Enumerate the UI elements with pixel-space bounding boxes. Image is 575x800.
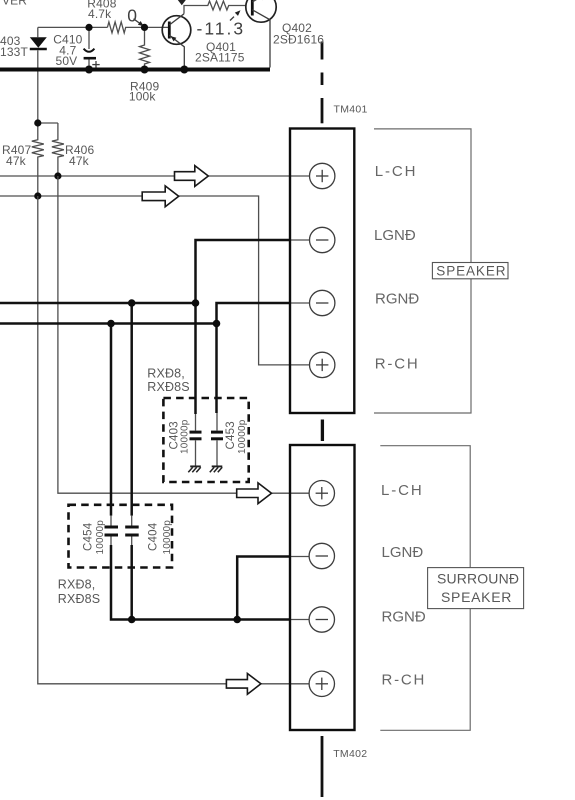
svg-text:SPEAKER: SPEAKER <box>436 264 506 279</box>
svg-text:R-CH: R-CH <box>382 672 427 689</box>
svg-text:RGNĐ: RGNĐ <box>375 291 419 308</box>
svg-text:2SA1175: 2SA1175 <box>195 51 245 65</box>
svg-text:RXĐ8,: RXĐ8, <box>147 367 185 381</box>
svg-text:RXĐ8S: RXĐ8S <box>147 380 189 394</box>
svg-text:100k: 100k <box>129 89 156 103</box>
svg-text:C454: C454 <box>83 522 95 551</box>
svg-text:TM401: TM401 <box>334 103 368 115</box>
svg-text:C404: C404 <box>148 522 160 551</box>
svg-text:LGNĐ: LGNĐ <box>374 227 416 244</box>
svg-text:RGNĐ: RGNĐ <box>382 609 426 626</box>
svg-text:47k: 47k <box>69 154 90 168</box>
svg-text:47k: 47k <box>6 154 27 168</box>
svg-text:0: 0 <box>127 6 139 26</box>
svg-text:10000p: 10000p <box>95 520 106 555</box>
svg-text:10000p: 10000p <box>179 419 190 454</box>
svg-text:VER: VER <box>2 0 27 8</box>
svg-text:4.7k: 4.7k <box>88 7 112 21</box>
svg-text:L-CH: L-CH <box>381 482 424 499</box>
svg-text:133T: 133T <box>0 45 28 59</box>
svg-text:2SĐ1616: 2SĐ1616 <box>273 32 324 46</box>
svg-text:R-CH: R-CH <box>375 356 420 373</box>
svg-text:LGNĐ: LGNĐ <box>382 544 424 561</box>
svg-text:SPEAKER: SPEAKER <box>441 589 512 605</box>
svg-text:SURROUNĐ: SURROUNĐ <box>437 571 519 587</box>
svg-text:C453: C453 <box>225 421 237 449</box>
svg-text:10000p: 10000p <box>237 419 248 454</box>
svg-text:L-CH: L-CH <box>375 163 418 180</box>
svg-text:50V: 50V <box>56 54 78 68</box>
svg-text:RXĐ8,: RXĐ8, <box>58 577 96 591</box>
svg-text:-11.3: -11.3 <box>197 19 246 39</box>
svg-text:TM402: TM402 <box>333 748 367 760</box>
svg-text:RXĐ8S: RXĐ8S <box>58 592 100 606</box>
svg-text:10000p: 10000p <box>162 520 173 555</box>
